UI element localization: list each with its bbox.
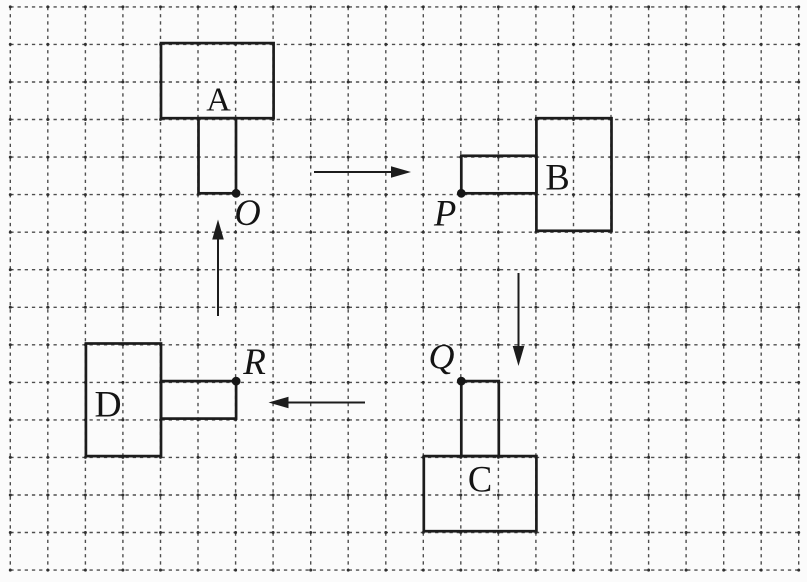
svg-text:B: B bbox=[545, 157, 569, 198]
svg-text:P: P bbox=[433, 192, 456, 233]
svg-text:D: D bbox=[94, 384, 121, 425]
svg-text:Q: Q bbox=[429, 336, 455, 376]
svg-text:A: A bbox=[206, 81, 231, 118]
svg-text:C: C bbox=[468, 458, 492, 499]
svg-text:O: O bbox=[234, 192, 260, 233]
svg-text:R: R bbox=[242, 342, 266, 383]
